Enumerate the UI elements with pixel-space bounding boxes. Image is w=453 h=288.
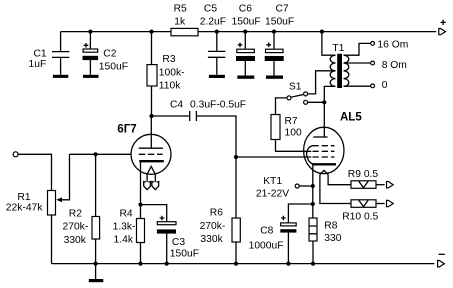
svg-text:C8: C8 [260, 226, 273, 237]
terminal 0 [371, 84, 375, 88]
svg-text:150uF: 150uF [232, 16, 261, 27]
wire secondary 8 Om tap [344, 62, 371, 64]
svg-text:6Г7: 6Г7 [117, 123, 136, 135]
resistor R10 [351, 200, 385, 208]
junction C3 / bottom rail [165, 262, 169, 266]
tube 6G7 [131, 116, 171, 174]
svg-text:1000uF: 1000uF [249, 241, 284, 252]
svg-text:C7: C7 [276, 3, 289, 14]
svg-text:C2: C2 [103, 49, 116, 60]
svg-text:2.2uF: 2.2uF [200, 16, 226, 27]
junction C8 node [311, 202, 315, 206]
svg-text:0.3uF-0.5uF: 0.3uF-0.5uF [190, 100, 246, 111]
wire S1 lower contact to anode node [308, 101, 325, 103]
resistor R6 [232, 157, 240, 264]
svg-text:16 Om: 16 Om [377, 40, 408, 51]
junction ground / bottom rail [94, 262, 98, 266]
svg-text:270k-: 270k- [200, 221, 226, 232]
capacitor C5 [208, 32, 225, 75]
wire KT1 to cathode [299, 185, 313, 187]
transformer T1 core [337, 54, 342, 88]
junction R6 / bottom rail [234, 262, 238, 266]
wire anode node to AL5 anode [323, 102, 325, 137]
svg-text:1.4k: 1.4k [114, 235, 134, 246]
resistor R3 [147, 32, 157, 116]
svg-text:21-22V: 21-22V [256, 189, 289, 200]
terminal input [13, 152, 18, 157]
wire AL5 heater right to R9 [328, 175, 351, 185]
junction C7 / top rail [272, 30, 276, 34]
wire secondary 16 Om tap [344, 43, 371, 55]
svg-text:R6: R6 [210, 208, 223, 219]
svg-text:KT1: KT1 [263, 176, 282, 187]
svg-text:110k: 110k [159, 81, 181, 92]
svg-text:R8: R8 [324, 221, 337, 232]
junction 6G7 anode node [149, 114, 153, 118]
heater arrow right of 6G7 [152, 181, 159, 190]
junction 6G7 cathode node [138, 203, 142, 207]
svg-text:R5: R5 [174, 3, 187, 14]
svg-text:C4: C4 [170, 100, 183, 111]
terminal R10 output [387, 200, 394, 206]
wire S1 to R7 [276, 98, 288, 115]
wire top rail to T1 primary [322, 32, 336, 56]
terminal 8 Om [371, 61, 375, 65]
svg-text:330k: 330k [64, 235, 87, 246]
svg-text:8 Om: 8 Om [382, 60, 407, 71]
transformer T1 primary winding [330, 55, 335, 86]
svg-text:C6: C6 [239, 3, 252, 14]
potentiometer R1 [48, 154, 70, 263]
wire top rail left section [61, 31, 171, 33]
svg-text:C5: C5 [204, 3, 217, 14]
svg-text:R1: R1 [17, 192, 30, 203]
svg-text:1uF: 1uF [29, 59, 47, 70]
svg-text:0: 0 [382, 80, 388, 91]
ground for C7 [266, 76, 283, 79]
junction C5 / top rail [215, 30, 219, 34]
wire grid bus to 6G7 grid [70, 153, 132, 155]
terminal KT1 [295, 184, 299, 188]
capacitor C8 (electrolytic) [280, 204, 313, 264]
wire AL5 heater left to R10 [320, 175, 351, 204]
heater arrow left of 6G7 [144, 181, 151, 190]
svg-text:330: 330 [324, 233, 341, 244]
ground for C2 [83, 75, 99, 78]
svg-text:C3: C3 [172, 237, 185, 248]
terminal + (B+ output) [439, 20, 446, 35]
switch S1 [287, 92, 308, 104]
svg-text:R2: R2 [69, 208, 82, 219]
wire 6G7 cathode down [140, 161, 142, 204]
svg-text:R3: R3 [162, 54, 175, 65]
ground for C5 [209, 75, 225, 78]
junction R2 / grid bus [94, 152, 98, 156]
svg-text:1.3k-: 1.3k- [113, 222, 136, 233]
resistor R5 [171, 28, 198, 35]
junction R4 / bottom rail [138, 262, 142, 266]
ground for C6 [237, 76, 254, 79]
wire secondary 0 tap [344, 85, 371, 87]
capacitor C4 [152, 111, 237, 157]
junction T1 branch / top rail [320, 30, 324, 34]
capacitor C7 (electrolytic) [265, 32, 284, 76]
junction R3 / top rail [149, 30, 153, 34]
svg-text:T1: T1 [332, 43, 344, 54]
terminal R9 output [387, 182, 394, 188]
wire T1 primary tap to S1 upper contact [308, 71, 336, 94]
svg-text:100: 100 [285, 127, 302, 138]
svg-text:R4: R4 [120, 209, 133, 220]
ground symbol [89, 264, 104, 283]
heater lead left of 6G7 [146, 174, 148, 182]
terminal - (B- output) [438, 254, 445, 267]
junction anode node [322, 100, 326, 104]
junction C8 / bottom rail [286, 262, 290, 266]
svg-text:270k-: 270k- [63, 222, 89, 233]
junction R8 / bottom rail [311, 262, 315, 266]
transformer T1 secondary winding [344, 55, 349, 86]
wire AL5 cathode down [312, 164, 314, 218]
svg-text:1k: 1k [174, 16, 186, 27]
heater lead right of 6G7 [154, 174, 156, 182]
svg-text:AL5: AL5 [340, 112, 362, 124]
junction KT1 node [311, 184, 315, 188]
wire R7 to AL5 screen grid [276, 140, 312, 152]
svg-text:S1: S1 [289, 81, 302, 92]
junction C2 / top rail [88, 30, 92, 34]
resistor R2 [92, 154, 100, 263]
tube AL5 [304, 127, 344, 174]
resistor R9 [351, 181, 385, 189]
junction AL5 grid node [234, 155, 238, 159]
svg-text:R9 0.5: R9 0.5 [348, 169, 379, 180]
svg-text:150uF: 150uF [170, 249, 199, 260]
wire grid node to AL5 control grid [236, 156, 311, 158]
wire input to R1 [18, 154, 51, 190]
svg-text:22k-47k: 22k-47k [6, 203, 43, 214]
svg-text:R10 0.5: R10 0.5 [342, 212, 378, 223]
wire T1 primary bottom to anode node [324, 86, 335, 102]
svg-text:150uF: 150uF [99, 61, 128, 72]
wire bottom rail [52, 263, 435, 265]
junction C6 / top rail [243, 30, 247, 34]
svg-text:150uF: 150uF [265, 16, 294, 27]
capacitor C2 (electrolytic) [83, 32, 99, 75]
resistor R4 [137, 205, 145, 264]
ground for C1 [53, 75, 68, 78]
resistor R8 [309, 218, 317, 264]
svg-text:100k-: 100k- [159, 67, 185, 78]
capacitor C1 [52, 32, 69, 75]
wire top rail right section [198, 31, 436, 33]
svg-text:R7: R7 [285, 116, 298, 127]
resistor R7 [271, 115, 280, 140]
capacitor C3 (electrolytic) [141, 205, 177, 264]
svg-text:C1: C1 [34, 49, 47, 60]
terminal 16 Om [371, 42, 375, 46]
svg-text:330k: 330k [200, 234, 223, 245]
capacitor C6 (electrolytic) [236, 32, 255, 76]
